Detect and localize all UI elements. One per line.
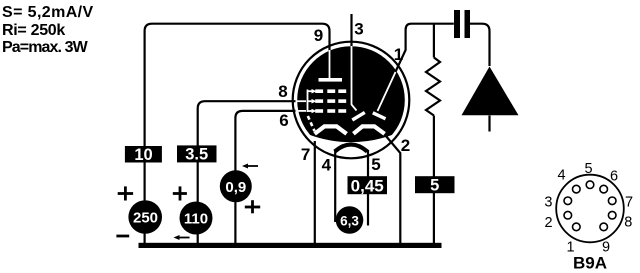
svg-text:9: 9 bbox=[314, 26, 323, 45]
pin 1 lead inside (white) bbox=[378, 72, 396, 111]
current arrow (110) bbox=[174, 235, 190, 240]
plus sign (110) bbox=[173, 186, 187, 200]
wire anode top (pin 9 to 10-box column) bbox=[145, 24, 330, 243]
plus sign (250) bbox=[118, 186, 133, 200]
output arrow (triangle) bbox=[462, 67, 519, 116]
plus sign (0,9) bbox=[245, 200, 260, 213]
wire bottom rail bbox=[139, 243, 442, 248]
svg-text:7: 7 bbox=[625, 195, 633, 211]
grid dash right (pin 1) bbox=[373, 113, 386, 119]
pin label 5 bbox=[371, 155, 380, 174]
meter 250 bbox=[128, 200, 162, 234]
pin label 9 bbox=[314, 26, 323, 45]
meter 6,3 bbox=[336, 206, 364, 234]
triode anode (pin 9 lead, white) bbox=[329, 50, 331, 79]
svg-text:Ri= 250k: Ri= 250k bbox=[2, 22, 65, 39]
wire resistor bottom to rail bbox=[433, 116, 435, 244]
svg-text:3: 3 bbox=[354, 20, 363, 39]
pin label 8 bbox=[278, 82, 287, 101]
pin label 1 bbox=[394, 45, 403, 64]
wire pin 4 to 6,3 meter bbox=[334, 150, 336, 222]
svg-text:5: 5 bbox=[584, 161, 592, 177]
grid bracket (white) bbox=[307, 90, 309, 113]
svg-text:0,45: 0,45 bbox=[351, 176, 384, 195]
svg-text:6: 6 bbox=[610, 169, 618, 185]
wire pin 5 through 0,45 box bbox=[367, 150, 369, 226]
pin 3 lead inside (white) bbox=[352, 46, 357, 111]
svg-text:5: 5 bbox=[371, 155, 380, 174]
wire resistor top lead bbox=[433, 24, 435, 58]
B9A pin numbers bbox=[544, 161, 633, 256]
cathode left chevron bbox=[315, 126, 347, 133]
svg-text:4: 4 bbox=[557, 168, 565, 184]
wire pin 1 to capacitor bbox=[394, 24, 454, 75]
current arrow (0,9) bbox=[242, 164, 258, 169]
wire pin 3 stub bbox=[350, 14, 352, 47]
svg-text:Pa=max. 3W: Pa=max. 3W bbox=[2, 39, 89, 56]
triode anode bar bbox=[319, 78, 343, 82]
tube bottom crescent (white) bbox=[309, 135, 393, 161]
svg-text:8: 8 bbox=[278, 82, 287, 101]
svg-text:2: 2 bbox=[545, 215, 553, 231]
pin label 3 bbox=[354, 20, 363, 39]
svg-text:8: 8 bbox=[624, 214, 632, 230]
minus sign (250) bbox=[116, 235, 129, 238]
svg-text:3: 3 bbox=[544, 195, 552, 211]
B9A label bbox=[573, 254, 607, 273]
grid stub pin 8 bbox=[296, 100, 306, 102]
value box 0,45 bbox=[348, 176, 388, 195]
svg-text:6,3: 6,3 bbox=[340, 214, 359, 229]
grid stub pin 6 bbox=[296, 110, 306, 112]
pin label 6 bbox=[279, 111, 288, 130]
wire pin 6 (0,9 column) bbox=[235, 111, 295, 243]
pin label 2 bbox=[401, 136, 410, 155]
svg-text:3.5: 3.5 bbox=[185, 146, 208, 164]
wire pin 7 bbox=[314, 141, 316, 243]
svg-text:7: 7 bbox=[301, 145, 310, 164]
value box 3.5 bbox=[177, 145, 217, 163]
pin label 4 bbox=[322, 156, 332, 175]
grid dash left (pin 3) bbox=[352, 112, 365, 120]
resistor R1 bbox=[426, 58, 440, 116]
wire arrow bottom lead bbox=[488, 116, 490, 132]
tube interior black fill bbox=[297, 46, 405, 154]
capacitor C1 bbox=[454, 10, 470, 38]
wire capacitor to arrow bbox=[470, 24, 490, 66]
value box 10 bbox=[125, 146, 162, 164]
svg-text:5: 5 bbox=[430, 176, 439, 194]
B9A pin holes bbox=[564, 181, 616, 231]
svg-text:250: 250 bbox=[133, 210, 158, 227]
pin label 7 bbox=[301, 145, 310, 164]
svg-text:S= 5,2mA/V: S= 5,2mA/V bbox=[2, 4, 94, 21]
svg-text:1: 1 bbox=[394, 45, 403, 64]
meter 110 bbox=[180, 202, 213, 235]
svg-text:0,9: 0,9 bbox=[225, 179, 246, 196]
svg-text:4: 4 bbox=[322, 156, 332, 175]
cathode right chevron bbox=[353, 126, 384, 133]
grid arrows bbox=[308, 89, 317, 113]
svg-text:10: 10 bbox=[134, 146, 152, 164]
value box 5 bbox=[415, 176, 455, 194]
tube envelope bbox=[293, 42, 410, 159]
wire pin 2 bbox=[386, 136, 401, 244]
shield dashed lead bbox=[308, 116, 315, 131]
grid dashes (3 rows) bbox=[315, 89, 346, 112]
meter 0,9 bbox=[220, 170, 252, 202]
svg-text:B9A: B9A bbox=[573, 254, 607, 273]
B9A socket circle bbox=[556, 175, 624, 243]
svg-text:2: 2 bbox=[401, 136, 410, 155]
heater filament bbox=[335, 145, 368, 152]
svg-text:6: 6 bbox=[279, 111, 288, 130]
title text S/Ri/Pa bbox=[2, 4, 94, 56]
wire pin 8 (3.5-box column) bbox=[198, 101, 296, 243]
svg-text:110: 110 bbox=[184, 211, 208, 228]
